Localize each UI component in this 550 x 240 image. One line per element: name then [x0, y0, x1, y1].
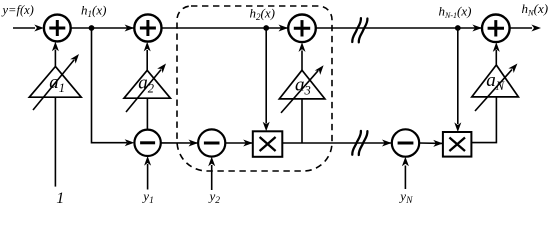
wire B2 output up to aN base: [471, 97, 496, 143]
svg-text:y1: y1: [141, 188, 154, 206]
wire a1 apex to A1: [52, 42, 59, 67]
svg-text:hN-1(x): hN-1(x): [439, 3, 472, 20]
wire y1 input: [144, 156, 151, 190]
dashed selection box: [177, 6, 332, 171]
adder A1: [44, 15, 71, 42]
break mark top line: [352, 18, 367, 42]
wire M3 to multiplier B2: [419, 140, 443, 147]
wire a2 base to M1: [146, 98, 148, 130]
wire A1 to A2: [71, 25, 135, 32]
wire input arrow: [13, 25, 44, 32]
adjust arrow aN: [475, 61, 520, 111]
svg-text:yN: yN: [398, 188, 413, 206]
wire output arrow: [510, 25, 541, 32]
wire A3 to A4: [316, 25, 482, 32]
amplifier a3: [279, 70, 325, 99]
break mark bottom line: [352, 131, 367, 155]
amplifier a2: [124, 70, 170, 98]
svg-text:hN(x): hN(x): [522, 1, 549, 18]
amplifier aN: [472, 65, 519, 97]
svg-text:h2(x): h2(x): [250, 5, 275, 22]
adder A2: [134, 14, 161, 41]
adjust arrow a1: [33, 52, 82, 110]
subtractor M1: [134, 130, 160, 156]
wire a3 apex to A3: [299, 42, 306, 70]
subtractor M3: [392, 129, 419, 156]
wire M2 to multiplier B1: [225, 140, 253, 147]
wire yN input: [402, 157, 409, 189]
wire a3 base to bottom line: [301, 99, 303, 143]
adjust arrow a3: [281, 63, 326, 113]
wire A2 to A3: [162, 25, 289, 32]
svg-text:1: 1: [56, 190, 64, 207]
wire node h1 down to subtractor M1: [92, 28, 135, 146]
wire node h2 down to B1: [263, 28, 270, 131]
adder A3: [288, 14, 316, 42]
wire y2 input: [208, 157, 215, 190]
wire M1 to M2: [161, 140, 198, 147]
svg-text:y=f(x): y=f(x): [1, 3, 34, 17]
node h2 junction: [263, 25, 269, 31]
amplifier a1: [29, 67, 81, 98]
wire constant 1 input: [54, 97, 56, 186]
multiplier B2: [443, 132, 472, 157]
wire a2 apex to A2: [144, 42, 151, 70]
adjust arrow a2: [126, 61, 169, 112]
subtractor M2: [198, 129, 225, 156]
node hN-1 junction: [455, 25, 461, 31]
svg-text:h1(x): h1(x): [81, 2, 106, 19]
svg-text:y2: y2: [208, 189, 221, 207]
adder A4: [482, 14, 510, 42]
wire node hN-1 down to B2: [454, 28, 461, 132]
wire aN apex to A4: [493, 42, 500, 65]
wire B1 to M3: [282, 140, 391, 147]
node h1 junction: [89, 25, 95, 31]
multiplier B1: [253, 131, 282, 157]
